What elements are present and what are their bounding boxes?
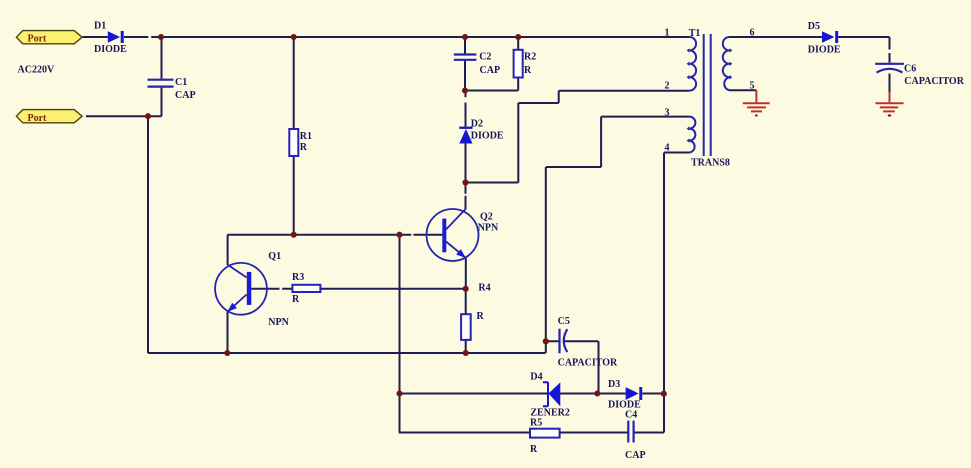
svg-text:1: 1 bbox=[665, 28, 670, 39]
svg-text:R3: R3 bbox=[292, 272, 304, 283]
svg-text:D3: D3 bbox=[608, 379, 620, 390]
svg-text:Q1: Q1 bbox=[268, 251, 281, 262]
svg-text:R5: R5 bbox=[530, 418, 542, 429]
svg-text:R: R bbox=[524, 65, 532, 76]
svg-text:Port: Port bbox=[28, 113, 48, 124]
svg-text:DIODE: DIODE bbox=[94, 44, 127, 55]
svg-text:R1: R1 bbox=[300, 131, 312, 142]
svg-text:4: 4 bbox=[665, 143, 670, 154]
svg-text:D2: D2 bbox=[471, 119, 483, 130]
svg-text:CAPACITOR: CAPACITOR bbox=[558, 358, 618, 369]
svg-text:R: R bbox=[477, 311, 485, 322]
svg-text:Q2: Q2 bbox=[480, 212, 493, 223]
svg-text:R2: R2 bbox=[524, 52, 536, 63]
svg-text:C1: C1 bbox=[175, 77, 187, 88]
svg-text:C4: C4 bbox=[625, 410, 637, 421]
svg-text:T1: T1 bbox=[689, 28, 701, 39]
svg-text:AC220V: AC220V bbox=[18, 65, 55, 76]
svg-text:DIODE: DIODE bbox=[471, 131, 504, 142]
svg-text:3: 3 bbox=[665, 108, 670, 119]
svg-text:R4: R4 bbox=[478, 283, 490, 294]
svg-text:CAP: CAP bbox=[175, 90, 196, 101]
svg-text:D5: D5 bbox=[808, 21, 820, 32]
svg-text:2: 2 bbox=[665, 81, 670, 92]
svg-text:5: 5 bbox=[750, 81, 755, 92]
svg-text:DIODE: DIODE bbox=[808, 44, 841, 55]
svg-text:C5: C5 bbox=[558, 316, 570, 327]
svg-text:R: R bbox=[292, 294, 300, 305]
svg-text:CAPACITOR: CAPACITOR bbox=[904, 76, 964, 87]
svg-text:CAP: CAP bbox=[480, 65, 501, 76]
svg-text:C6: C6 bbox=[904, 63, 916, 74]
svg-text:NPN: NPN bbox=[478, 223, 499, 234]
svg-text:R: R bbox=[300, 142, 308, 153]
svg-text:6: 6 bbox=[750, 27, 755, 38]
svg-text:Port: Port bbox=[28, 34, 48, 45]
svg-text:NPN: NPN bbox=[268, 317, 289, 328]
svg-text:R: R bbox=[530, 444, 538, 455]
svg-text:D1: D1 bbox=[94, 21, 106, 32]
svg-text:CAP: CAP bbox=[625, 450, 646, 461]
svg-text:TRANS8: TRANS8 bbox=[691, 158, 730, 169]
svg-text:D4: D4 bbox=[530, 372, 542, 383]
svg-text:C2: C2 bbox=[479, 52, 491, 63]
